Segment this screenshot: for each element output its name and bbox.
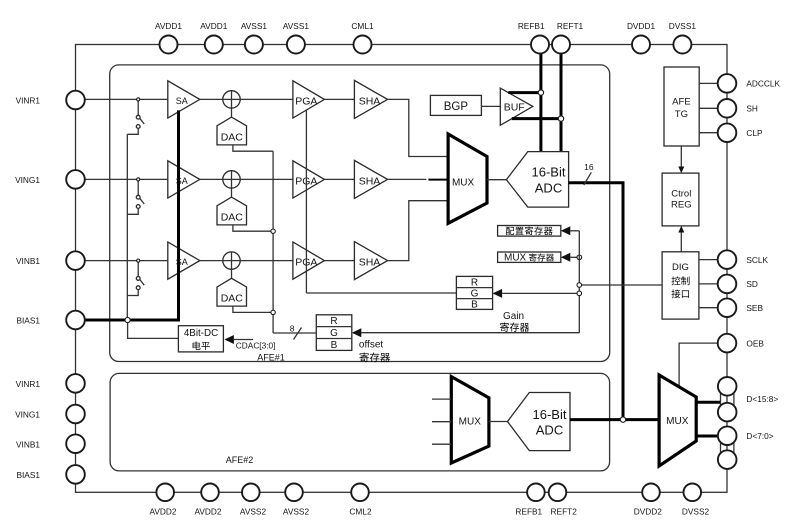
junction BUF-REFB1 (538, 90, 543, 95)
svg-text:DAC: DAC (221, 293, 244, 305)
svg-text:ADC: ADC (535, 181, 562, 196)
adc ADC1 16-Bit (506, 152, 568, 208)
pin SH right (718, 99, 737, 118)
pin CML1 top (354, 36, 372, 54)
junction BIAS1 node (125, 317, 130, 322)
pin VINR1 left (66, 374, 85, 393)
svg-text:SHA: SHA (359, 95, 381, 107)
pin SD right (718, 275, 737, 294)
DAC2 (217, 197, 247, 225)
wire AFE TG to SH (699, 107, 718, 109)
amplifier PGA2 (293, 161, 325, 198)
svg-text:B: B (331, 340, 338, 351)
summing node adder3 (223, 252, 240, 269)
svg-text:REFB1: REFB1 (518, 21, 545, 31)
wire row2 input VING1 to SA2 (76, 178, 168, 180)
wire DAC chain vertical (272, 151, 274, 333)
block 4Bit-DC level (178, 326, 223, 352)
pin VING1 left (66, 405, 85, 424)
pin REFT1 top (552, 36, 570, 54)
amplifier PGA1 (293, 81, 325, 118)
pin D<15:8> circles (718, 377, 737, 396)
summing node adder2 (223, 171, 240, 188)
wire AFE TG to CLP (699, 132, 718, 134)
pin AVDD1 top (205, 36, 223, 54)
pin group capsule D<15:8> (721, 380, 734, 419)
mux MUX1 (448, 134, 487, 223)
wire DIG to SEB (699, 307, 718, 309)
wire DAC3 output (233, 306, 273, 312)
wire BGP to BUF (481, 105, 500, 107)
pin REFB1 bottom (527, 484, 545, 502)
wire AFE TG to ADCCLK (699, 82, 718, 84)
wire SHA2 output to MUX (388, 178, 427, 180)
svg-text:SEB: SEB (746, 303, 763, 313)
svg-text:AVSS1: AVSS1 (283, 21, 310, 31)
svg-text:VINR1: VINR1 (16, 379, 41, 389)
pin VING1 left (66, 170, 85, 189)
wire MUX2 input stub 3 (432, 443, 451, 445)
amplifier SA3 (168, 242, 200, 279)
svg-text:VINB1: VINB1 (16, 256, 40, 266)
svg-text:VING1: VING1 (15, 175, 40, 185)
outer chip border (76, 45, 728, 493)
svg-text:VINB1: VINB1 (16, 439, 40, 449)
pin REFT2 bottom (549, 484, 567, 502)
arrow CDAC into 4Bit-DC (224, 335, 234, 344)
svg-text:SA: SA (176, 96, 188, 106)
register 配置寄存器 (498, 226, 561, 237)
pin AVSS2 bottom (242, 484, 260, 502)
junction DAC3 chain (271, 310, 275, 314)
wire BUF to REFT1 line (512, 117, 561, 120)
svg-text:VINR1: VINR1 (16, 96, 41, 106)
svg-text:AVDD2: AVDD2 (149, 506, 176, 516)
svg-text:ADC: ADC (536, 422, 563, 437)
wire row3 input VINB1 to SA3 (76, 260, 168, 262)
svg-text:SCLK: SCLK (746, 255, 768, 265)
junction row3 switch tap (137, 259, 140, 262)
block AFE TG (664, 67, 699, 146)
svg-text:R: R (471, 277, 478, 288)
pin AVDD1 top (160, 36, 178, 54)
wire SA3 apex to adder3 (200, 260, 223, 262)
wire ADC1 output 16-bit bus (569, 183, 623, 420)
arrow AFE TG to Ctrol REG (680, 146, 682, 167)
mux MUX2 (451, 377, 489, 463)
svg-text:ADCCLK: ADCCLK (746, 79, 780, 89)
wire adder3 to DAC3 (231, 269, 233, 278)
svg-text:REFB1: REFB1 (515, 506, 542, 516)
wire MUX3 to D<7:0> (696, 435, 718, 438)
svg-text:MUX: MUX (504, 253, 527, 264)
pin DVSS2 bottom (684, 484, 702, 502)
pin AVDD2 bottom (156, 484, 174, 502)
pin DVSS1 top (673, 36, 691, 54)
wire adder1 to DAC1 (231, 108, 233, 117)
register Gain R/G/B (456, 276, 492, 309)
svg-text:4Bit-DC: 4Bit-DC (184, 328, 218, 339)
junction BUF-REFT1 (558, 116, 563, 121)
wire MUX1 to ADC1 (487, 179, 506, 181)
wire PGA1 to SHA1 (324, 98, 354, 100)
svg-text:16-Bit: 16-Bit (532, 165, 566, 180)
pin BIAS1 left (66, 311, 85, 330)
svg-text:R: R (330, 316, 337, 327)
pin AVSS2 bottom (285, 484, 303, 502)
wire SA bias vertical (177, 110, 180, 321)
svg-text:16: 16 (584, 162, 594, 172)
svg-text:DVSS1: DVSS1 (669, 21, 697, 31)
pin DVDD2 bottom (642, 484, 660, 502)
DAC1 (217, 117, 247, 145)
amplifier PGA3 (293, 242, 325, 279)
bus width slash 16 (584, 172, 592, 185)
wire SA2 apex to adder2 (200, 178, 223, 180)
DAC3 (217, 278, 247, 306)
adc ADC2 16-Bit (508, 393, 571, 451)
svg-text:BGP: BGP (444, 101, 469, 113)
amplifier SHA2 (354, 160, 387, 198)
amplifier SA1 (168, 81, 200, 118)
svg-text:MUX: MUX (459, 417, 482, 428)
svg-text:MUX: MUX (666, 416, 689, 427)
svg-text:SD: SD (746, 279, 758, 289)
wire CDAC 8-bit bus to offset register (273, 332, 316, 334)
summing node adder1 (223, 91, 240, 108)
svg-text:AVDD1: AVDD1 (155, 21, 182, 31)
block Ctrol REG (662, 173, 699, 226)
amplifier SA2 (168, 161, 200, 198)
switch SW3 (137, 262, 139, 276)
block DIG interface (662, 252, 699, 319)
svg-text:G: G (330, 328, 338, 339)
pin REFB1 top (531, 36, 549, 54)
svg-text:PGA: PGA (295, 95, 317, 107)
pin VINB1 left (66, 434, 85, 453)
svg-text:AFE: AFE (672, 96, 690, 107)
pin AVSS1 top (245, 36, 263, 54)
wire MUX3 to D<15:8> (696, 401, 720, 404)
wire DIG to SCLK (699, 259, 718, 261)
amplifier SHA1 (354, 80, 387, 118)
pin D<7:0> circles (718, 426, 737, 445)
pin VINR1 left (66, 91, 85, 110)
switch SW2 (137, 181, 139, 195)
wire gain chain to Gain register (306, 292, 456, 294)
wire adder3 to PGA3 (240, 260, 293, 262)
svg-text:REFT1: REFT1 (557, 21, 584, 31)
svg-text:REG: REG (671, 200, 692, 211)
junction row2 switch tap (137, 178, 140, 181)
svg-text:DVDD2: DVDD2 (634, 506, 663, 516)
arrow into Gain register (493, 289, 503, 298)
svg-text:MUX: MUX (452, 177, 475, 188)
svg-text:TG: TG (675, 109, 688, 120)
svg-text:AVDD1: AVDD1 (200, 21, 227, 31)
pin SCLK right (718, 250, 737, 269)
svg-text:OEB: OEB (746, 338, 764, 348)
pin group capsule D<7:0> (721, 429, 734, 466)
junction bus-Gain (577, 291, 582, 296)
svg-text:SH: SH (746, 104, 758, 114)
pin AVDD2 bottom (201, 484, 219, 502)
svg-text:offset: offset (359, 340, 383, 351)
register offset R/G/B (316, 315, 352, 351)
svg-text:CML1: CML1 (351, 21, 374, 31)
svg-text:AFE#1: AFE#1 (257, 352, 285, 362)
wire adder1 to PGA1 (240, 98, 293, 100)
wire DIG to SD (699, 283, 718, 285)
svg-text:Gain: Gain (503, 311, 524, 322)
svg-text:SA: SA (176, 176, 188, 186)
arrow into offset register (352, 328, 362, 337)
pin CLP right (718, 123, 737, 142)
svg-text:AVSS2: AVSS2 (283, 506, 310, 516)
wire SHA3 output to MUX (388, 201, 449, 261)
wire DAC1 output (233, 145, 273, 151)
buffer BUF (500, 88, 533, 125)
svg-text:BIAS1: BIAS1 (16, 470, 40, 480)
register MUX寄存器 (498, 252, 561, 262)
svg-text:Ctrol: Ctrol (671, 188, 691, 199)
AFE#1 block outline (110, 65, 610, 362)
svg-text:8: 8 (290, 324, 295, 334)
pin VINB1 left (66, 251, 85, 270)
pin AVSS1 top (287, 36, 305, 54)
svg-text:AVSS1: AVSS1 (241, 21, 268, 31)
svg-text:VING1: VING1 (15, 410, 40, 420)
wire ADC2 output (570, 418, 659, 421)
arrow DIG to Ctrol REG (680, 232, 682, 252)
wire adder2 to PGA2 (240, 178, 293, 180)
wire SHA1 output to MUX (388, 99, 449, 156)
svg-text:SHA: SHA (359, 257, 381, 269)
svg-text:BUF: BUF (504, 102, 525, 114)
wire BIAS1 feed (76, 319, 179, 322)
pin BIAS1 left (66, 465, 85, 484)
wire MUX2 to ADC2 (489, 421, 508, 423)
AFE#2 block outline (110, 373, 609, 471)
pin ADCCLK right (718, 74, 737, 93)
amplifier SHA3 (354, 242, 387, 280)
svg-text:BIAS1: BIAS1 (16, 316, 40, 326)
svg-text:G: G (471, 289, 479, 300)
wire OEB to output MUX (679, 343, 718, 387)
wire BUF to REFB1 line (508, 91, 541, 94)
wire PGA2 to SHA2 (324, 178, 354, 180)
pin CML2 bottom (351, 484, 369, 502)
wire PGA3 to SHA3 (324, 260, 354, 262)
junction row1 switch tap (137, 98, 140, 101)
svg-text:REFT2: REFT2 (551, 506, 578, 516)
wire switch common bus (126, 134, 128, 320)
wire REFB1 vertical to ADC (539, 45, 542, 152)
wire bus to DIG (579, 284, 662, 286)
junction MUX-reg bus (577, 255, 582, 260)
svg-text:SHA: SHA (359, 175, 381, 187)
block BGP (430, 95, 481, 115)
svg-text:DAC: DAC (221, 211, 244, 223)
pin OEB right (718, 334, 737, 353)
switch SW1 (137, 101, 139, 115)
wire PGA gain chain (305, 110, 307, 293)
wire SA1 apex to adder1 (200, 98, 223, 100)
svg-text:AFE#2: AFE#2 (226, 455, 254, 465)
wire MUX2 input stub 1 (432, 398, 451, 400)
wire control bus vertical (578, 231, 580, 333)
wire row1 input VINR1 to SA1 (76, 98, 168, 100)
junction bus-DIG (577, 283, 582, 288)
svg-text:D<7:0>: D<7:0> (746, 431, 773, 441)
wire DAC2 output (233, 225, 273, 231)
svg-text:SA: SA (176, 257, 188, 267)
svg-text:DIG: DIG (672, 262, 689, 273)
svg-text:DVSS2: DVSS2 (682, 506, 710, 516)
svg-text:AVSS2: AVSS2 (240, 506, 267, 516)
wire REFT1 vertical to ADC (560, 45, 563, 152)
wire CDAC stub (234, 339, 253, 341)
mux MUX3 output (659, 375, 696, 466)
svg-text:B: B (471, 300, 478, 311)
wire BIAS1 to 4Bit-DC (128, 323, 179, 339)
wire bus to offset register (361, 332, 579, 334)
bus width slash 8 (294, 328, 302, 340)
svg-text:CLP: CLP (746, 128, 763, 138)
svg-text:16-Bit: 16-Bit (533, 407, 567, 422)
svg-text:CDAC[3:0]: CDAC[3:0] (236, 341, 276, 351)
svg-text:D<15:8>: D<15:8> (746, 394, 778, 404)
svg-text:AVDD2: AVDD2 (194, 506, 221, 516)
pin SEB right (718, 298, 737, 317)
svg-text:DAC: DAC (221, 131, 244, 143)
junction ADC buses (620, 417, 625, 422)
pin DVDD1 top (632, 36, 650, 54)
wire adder2 to DAC2 (231, 188, 233, 197)
svg-text:DVDD1: DVDD1 (627, 21, 656, 31)
junction DAC2 chain (271, 229, 275, 233)
svg-text:CML2: CML2 (349, 506, 372, 516)
wire MUX2 input stub 2 (432, 421, 451, 423)
